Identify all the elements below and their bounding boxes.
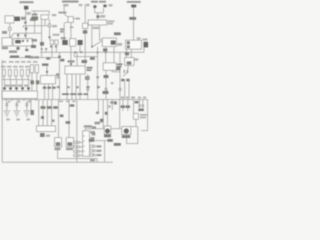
labels on wire y140.6 xyxy=(89,139,94,142)
fusible link box xyxy=(133,114,138,120)
label left of wire x64 lower xyxy=(60,28,65,30)
label on drop x58.5 xyxy=(60,115,64,118)
box F output wires xyxy=(66,74,68,100)
box I label xyxy=(55,148,61,150)
labels left of box K xyxy=(95,122,101,125)
text below glow label xyxy=(9,51,17,53)
box B xyxy=(5,16,14,23)
header text far-right xyxy=(127,1,141,3)
component comp1 dark xyxy=(62,40,67,45)
label under right drops xyxy=(138,109,144,112)
labels on right drops xyxy=(121,105,125,108)
relay coil dark xyxy=(111,40,116,44)
compressor clutch box xyxy=(88,20,106,25)
box F xyxy=(65,66,85,74)
horn symbol xyxy=(143,39,148,41)
box P side label xyxy=(117,64,123,66)
labels on drop x69 xyxy=(70,104,75,106)
box D xyxy=(41,15,49,20)
header text top-center xyxy=(62,0,79,2)
box H inner dark xyxy=(67,142,72,146)
junction dots on mid bus xyxy=(75,51,77,53)
connector A dark xyxy=(24,6,28,10)
bus3 xyxy=(2,79,30,81)
box I inner dark xyxy=(56,142,60,146)
mid bus to box F wire xyxy=(76,52,78,66)
ground label 3 xyxy=(27,119,31,121)
fuse labels left xyxy=(3,61,7,63)
ground label 2 xyxy=(16,119,20,121)
labels under connector symbol xyxy=(121,79,125,82)
wire from connector A down to rail xyxy=(25,10,27,26)
box G xyxy=(37,126,56,132)
side label box xyxy=(32,39,38,42)
relay switch diag xyxy=(91,46,93,48)
pin pad box R xyxy=(46,71,48,73)
condenser fan motor M2 symbol xyxy=(124,128,129,133)
label on wire x87.7 xyxy=(85,76,90,80)
small boxes cluster xyxy=(50,40,53,45)
component comp3 dark xyxy=(78,40,83,45)
wire below D left pin xyxy=(41,20,43,58)
pin ticks below box Q xyxy=(5,99,7,102)
label on wire y56.6 xyxy=(90,57,95,60)
sub text under center header xyxy=(63,4,68,6)
wire label W1 xyxy=(27,12,31,15)
label above bus x97 xyxy=(97,86,100,88)
label between drops xyxy=(125,52,129,55)
inline connector C7 xyxy=(48,24,50,27)
module pin mark xyxy=(22,40,24,42)
drop x69 xyxy=(68,100,70,138)
ovals right of J xyxy=(90,145,96,156)
bus2 label B xyxy=(25,56,31,58)
connector C9 top right xyxy=(131,5,136,8)
text block top-right xyxy=(30,18,36,21)
connector C4 xyxy=(17,34,19,36)
ovals left of J xyxy=(74,141,83,157)
drops to box G xyxy=(38,100,40,127)
component row label xyxy=(61,37,66,39)
drop x26 rail1 to rail2 xyxy=(25,26,27,34)
wire y11 horizontal xyxy=(32,10,50,12)
module inner dark block xyxy=(15,40,21,43)
wire component to rail2 xyxy=(34,20,36,33)
inline connector xyxy=(8,28,11,31)
label left of loop xyxy=(114,143,121,146)
fuse 6/7 wire labels xyxy=(30,80,34,84)
bus2 drop x59.5 xyxy=(59,52,61,99)
box P right output L-wire xyxy=(111,70,113,72)
rail1 y25.7 xyxy=(23,26,50,29)
connector C5 xyxy=(16,47,19,50)
fuse to bus3 wires xyxy=(3,76,5,80)
connector C8 on clutch feed xyxy=(96,15,99,18)
label on box P output xyxy=(104,75,109,78)
arrow label xyxy=(77,18,80,20)
labels right of box J xyxy=(90,131,95,133)
wires from AC connectors xyxy=(94,8,96,13)
wires to main bus right xyxy=(124,81,126,99)
drops below big box xyxy=(17,46,19,50)
ground symbol 2 xyxy=(13,111,20,116)
label on drop x103 xyxy=(100,119,104,123)
label above wire y128.7 xyxy=(84,125,92,127)
drop x81.1 xyxy=(79,45,81,52)
blower motor M1 symbol xyxy=(105,129,110,134)
box R label xyxy=(57,76,61,79)
wires bus3 to box Q xyxy=(4,80,6,92)
dark label block xyxy=(31,45,36,48)
box I xyxy=(55,138,62,147)
diode symbol mid xyxy=(64,14,68,17)
header text top-right-a xyxy=(91,1,98,3)
box R wire labels xyxy=(43,87,47,89)
tick T1 xyxy=(41,48,43,50)
right component box xyxy=(125,58,134,66)
bus2 y57.6 xyxy=(9,57,60,59)
below relay wires xyxy=(105,47,107,63)
label xyxy=(2,31,7,34)
glow plug relay box xyxy=(2,38,12,46)
wire chain right of D xyxy=(49,20,51,25)
box P xyxy=(103,63,116,71)
header text top-left xyxy=(20,1,34,3)
bottom border xyxy=(2,161,113,163)
box L label xyxy=(122,135,131,138)
box K label xyxy=(104,135,111,138)
connector C6 xyxy=(25,49,28,51)
big box Q xyxy=(2,91,38,99)
drop x74.3 to box F xyxy=(73,52,75,56)
label on drop x31 xyxy=(31,110,34,115)
box J tall connector xyxy=(83,131,90,157)
drop x58.5 xyxy=(58,100,60,138)
label on L-wire xyxy=(116,67,120,70)
comp2 to box F wire xyxy=(70,46,72,66)
connector C2 xyxy=(25,27,27,30)
fuse box 6 xyxy=(30,65,33,73)
drop x18 rail2 to big box xyxy=(17,33,19,38)
ground wire labels xyxy=(8,101,11,103)
connector symbol dashes xyxy=(124,70,125,73)
label under relay xyxy=(103,48,107,51)
inline connector ticks ground wires xyxy=(5,102,8,105)
box K blower motor xyxy=(104,126,111,134)
micro labels above bus right xyxy=(121,97,124,99)
wires below clutch box xyxy=(91,25,93,46)
HOT IN RUN text xyxy=(62,93,69,95)
box F side label xyxy=(87,67,93,69)
header text top-right-b xyxy=(99,1,106,3)
label on right wire xyxy=(129,17,136,20)
label right of box G connector xyxy=(46,135,50,137)
label on bus2 xyxy=(46,57,50,60)
horn to bus xyxy=(143,48,145,53)
ground wires xyxy=(6,101,8,111)
label at top of wire x85 xyxy=(86,4,90,6)
wire to glow relay xyxy=(9,30,11,38)
connector ticks x106 xyxy=(105,87,108,90)
right border xyxy=(141,100,148,131)
relay label xyxy=(117,43,122,46)
wire cluster left to bus2 xyxy=(51,45,53,58)
label on comp2 feed xyxy=(70,26,74,28)
connector ticks x120 xyxy=(119,87,122,90)
wire into module xyxy=(25,33,27,38)
box P output wire xyxy=(105,70,107,100)
ground symbol 1 xyxy=(3,111,10,116)
label on drop x98.4 xyxy=(96,112,99,115)
drop x104.6 to border xyxy=(104,141,106,163)
drop x107.5 to box K xyxy=(107,100,109,127)
ground symbol 3 xyxy=(23,111,30,116)
label right of D xyxy=(52,14,57,16)
connector pads above box Q xyxy=(3,87,6,89)
component comp2 box xyxy=(70,39,76,47)
label on wire x85 xyxy=(83,30,88,33)
label near bus x102 xyxy=(103,91,109,94)
diagonal wire from relay to rail2 xyxy=(10,33,42,37)
right column drops xyxy=(122,100,124,112)
connector ticks right drops xyxy=(138,104,141,107)
wire x49.6 down xyxy=(49,27,51,40)
label right of C xyxy=(21,17,26,20)
splice block S2 xyxy=(40,42,44,46)
label on fusible link wire xyxy=(135,101,139,103)
tick on wire x97.5 xyxy=(96,76,99,78)
fuse 6/7 wires down xyxy=(31,73,33,91)
AC connectors top xyxy=(93,5,96,8)
label on drop x112 xyxy=(110,101,113,103)
big module box xyxy=(13,39,32,46)
below-bus drop x31 xyxy=(30,100,32,111)
drop x112.3 xyxy=(111,100,113,111)
left drop wire x76.8 xyxy=(76,100,78,163)
connector ticks x87.7 xyxy=(86,88,89,89)
component dark box xyxy=(31,16,38,20)
box R pin wire xyxy=(46,66,48,75)
label above box F xyxy=(68,60,75,62)
chain below box F right xyxy=(87,74,89,100)
labels on drop x107.5 xyxy=(105,112,108,115)
right relay box N xyxy=(126,40,142,49)
wire y128.7 xyxy=(84,129,86,131)
fusible link label xyxy=(140,114,147,116)
fuse boxes row xyxy=(3,70,6,77)
stub wire x46 xyxy=(45,50,47,53)
wire below D right pin xyxy=(44,20,46,26)
mid bus y52.2 xyxy=(40,51,144,53)
connector C3 xyxy=(24,34,26,36)
glow relay label xyxy=(2,47,8,49)
small labels under bus xyxy=(59,101,63,103)
wire labels above box Q xyxy=(5,85,10,87)
comp2 feed wire xyxy=(70,22,72,39)
right top long wire xyxy=(133,7,135,40)
box H xyxy=(66,138,73,147)
drop x98.4 xyxy=(97,100,99,113)
main bus xyxy=(2,99,147,101)
splice S3 xyxy=(58,56,61,59)
relay top mid wire xyxy=(63,6,65,14)
right oval labels xyxy=(96,145,101,147)
splice S1 on wire xyxy=(24,22,26,24)
connector symbol arrow xyxy=(123,72,129,77)
junction dot J1 xyxy=(49,36,51,38)
box L condenser fan xyxy=(135,119,137,126)
diode exit wire xyxy=(64,22,68,24)
pin pad box F xyxy=(70,63,72,65)
bus2 label A xyxy=(10,56,19,58)
long wire x97.5 to bus xyxy=(97,47,99,100)
dark box C xyxy=(15,17,21,21)
label across wire x64 xyxy=(59,12,67,14)
label on wire x85 lower xyxy=(82,60,88,63)
wire y140.6 xyxy=(94,140,110,142)
clutch box label xyxy=(107,20,114,22)
box E on wire xyxy=(83,23,88,28)
label right of connectors xyxy=(109,4,113,6)
label between clutch wires xyxy=(93,27,99,29)
box N pin label xyxy=(137,37,141,39)
component label small xyxy=(32,13,38,15)
fuse 6/7 labels xyxy=(29,56,35,58)
ground label 1 xyxy=(6,119,10,121)
long wire x85.2 xyxy=(84,4,86,66)
wire from box I to bottom xyxy=(58,147,97,162)
label left of wire x59.5 xyxy=(56,73,59,76)
label above box R pin xyxy=(42,64,48,66)
wire cluster right to mid bus xyxy=(55,45,57,53)
wire stub to component xyxy=(34,11,36,13)
box H label xyxy=(66,148,73,150)
below box N chain xyxy=(125,49,127,57)
lower label on box G drop xyxy=(41,116,44,119)
labels on box G drops xyxy=(41,106,46,109)
box N inner marks xyxy=(127,41,130,44)
wire y56.5 across xyxy=(74,56,97,58)
left border xyxy=(1,60,3,162)
fuse box 7 xyxy=(35,65,38,73)
wire below box B xyxy=(9,23,11,28)
label below bus left edge right section xyxy=(114,101,117,104)
horn relay box xyxy=(102,38,116,47)
wire labels above bus xyxy=(57,86,60,88)
HOT label right xyxy=(114,32,121,35)
drop x103.2 xyxy=(102,100,104,129)
box R output wires xyxy=(44,84,46,100)
